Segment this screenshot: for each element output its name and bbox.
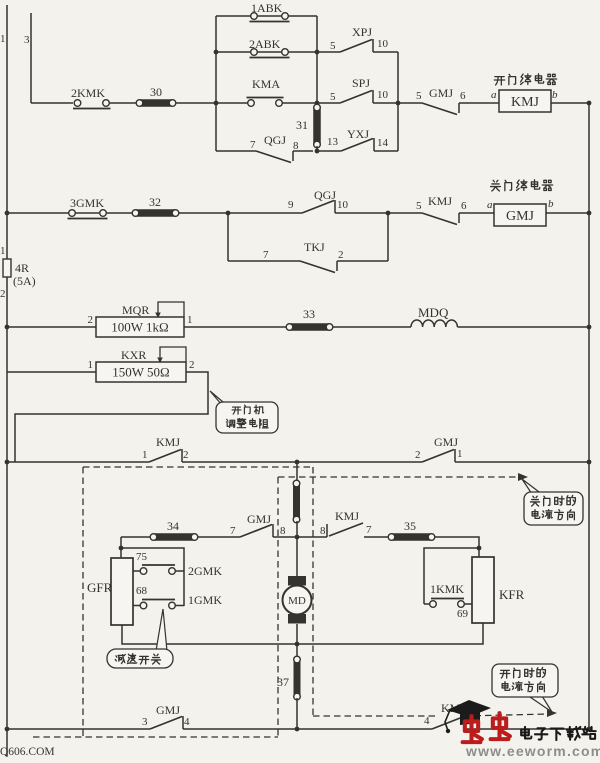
wire: motor column upper bbox=[296, 462, 298, 487]
svg-text:5: 5 bbox=[330, 91, 336, 103]
wire: bottom row y729 bbox=[7, 728, 150, 730]
svg-text:KMJ: KMJ bbox=[511, 95, 540, 110]
svg-text:KFR: KFR bbox=[499, 587, 525, 602]
svg-text:KMJ: KMJ bbox=[428, 194, 452, 208]
wire: row MQR y327 bbox=[7, 326, 96, 328]
KXR wiper arrow bbox=[160, 347, 186, 362]
wire bbox=[184, 326, 290, 328]
callout 关门时的电流方向 bbox=[522, 479, 543, 495]
svg-text:2: 2 bbox=[0, 288, 6, 300]
svg-text:10: 10 bbox=[377, 38, 389, 50]
callout 减速开关 bbox=[156, 609, 167, 651]
wire: left supply line 1 bbox=[6, 5, 8, 756]
dashed vertical right of motor bbox=[312, 467, 314, 716]
svg-text:30: 30 bbox=[150, 85, 162, 99]
dashed bottom right 开门 bbox=[313, 715, 436, 717]
svg-text:14: 14 bbox=[377, 137, 389, 149]
svg-text:7: 7 bbox=[250, 139, 256, 151]
wire bbox=[333, 326, 411, 328]
svg-text:2KMK: 2KMK bbox=[71, 86, 105, 100]
svg-text:GMJ: GMJ bbox=[247, 512, 271, 526]
svg-text:37: 37 bbox=[277, 675, 289, 689]
relay coil KMJ bbox=[499, 90, 551, 112]
svg-text:31: 31 bbox=[296, 118, 308, 132]
MQR wiper arrow bbox=[158, 302, 184, 317]
svg-text:KMJ: KMJ bbox=[156, 435, 180, 449]
wire: row y537 left of motor bbox=[121, 536, 240, 538]
svg-text:2GMK: 2GMK bbox=[188, 564, 222, 578]
svg-text:QGJ: QGJ bbox=[264, 133, 286, 147]
svg-text:33: 33 bbox=[303, 307, 315, 321]
svg-text:8: 8 bbox=[293, 140, 299, 152]
svg-text:1: 1 bbox=[0, 33, 6, 45]
callout 开门时的电流方向 bbox=[530, 696, 552, 712]
svg-text:6: 6 bbox=[461, 200, 467, 212]
svg-text:b: b bbox=[548, 198, 554, 210]
fuse 4R (5A) bbox=[3, 259, 11, 277]
wire bbox=[182, 461, 422, 463]
svg-text:7: 7 bbox=[366, 524, 372, 536]
wire bbox=[110, 102, 139, 104]
junction TKJ branch bbox=[226, 211, 231, 216]
svg-text:a: a bbox=[487, 199, 493, 211]
wire: KFR bottom bbox=[297, 623, 483, 644]
wire to KFR bbox=[435, 537, 479, 557]
svg-text:10: 10 bbox=[377, 89, 389, 101]
wire: branch vertical C bbox=[397, 52, 399, 151]
svg-text:(5A): (5A) bbox=[13, 274, 36, 288]
svg-text:34: 34 bbox=[167, 519, 179, 533]
svg-text:YXJ: YXJ bbox=[347, 127, 369, 141]
svg-text:8: 8 bbox=[320, 525, 326, 537]
svg-text:69: 69 bbox=[457, 608, 469, 620]
dashed bottom bbox=[33, 736, 278, 738]
svg-text:3: 3 bbox=[24, 34, 30, 46]
junction bbox=[295, 642, 300, 647]
wire bbox=[546, 212, 589, 214]
wire bbox=[317, 150, 341, 152]
svg-text:KXR: KXR bbox=[121, 348, 146, 362]
watermark 电子下载站 bbox=[521, 727, 531, 739]
junction bbox=[214, 101, 219, 106]
junction bbox=[315, 101, 320, 106]
svg-text:GMJ: GMJ bbox=[156, 703, 180, 717]
wire bbox=[296, 521, 298, 576]
wire: row2 2ABK/XPJ bbox=[216, 51, 317, 53]
resistor motor-top bbox=[293, 482, 300, 521]
wire: row y462 bbox=[7, 461, 149, 463]
svg-text:3GMK: 3GMK bbox=[70, 196, 104, 210]
dashed vertical left of motor bbox=[277, 477, 279, 737]
svg-text:MDQ: MDQ bbox=[418, 305, 449, 320]
dashed current path 关门 left bbox=[82, 467, 84, 737]
wire: branch vertical B bbox=[316, 16, 318, 103]
wire: row GMJ-coil y213 bbox=[7, 212, 302, 214]
svg-text:32: 32 bbox=[149, 195, 161, 209]
svg-text:4R: 4R bbox=[15, 261, 29, 275]
svg-text:3: 3 bbox=[142, 716, 148, 728]
wire to node bbox=[176, 102, 248, 104]
wire bbox=[337, 260, 388, 262]
wire: row y537 right of motor bbox=[297, 536, 327, 538]
svg-text:13: 13 bbox=[327, 136, 339, 148]
wire bbox=[296, 698, 298, 729]
junction bbox=[587, 101, 592, 106]
svg-text:5: 5 bbox=[416, 200, 422, 212]
svg-text:1: 1 bbox=[457, 448, 463, 460]
svg-text:1GMK: 1GMK bbox=[188, 593, 222, 607]
svg-text:XPJ: XPJ bbox=[352, 25, 372, 39]
svg-text:150W 50Ω: 150W 50Ω bbox=[112, 365, 169, 380]
svg-text:SPJ: SPJ bbox=[352, 76, 370, 90]
wire: TKJ branch down-left bbox=[227, 213, 229, 261]
wire bbox=[465, 728, 589, 730]
watermark 虫虫 red bbox=[463, 716, 482, 742]
relay coil GMJ bbox=[494, 204, 546, 226]
svg-text:GMJ: GMJ bbox=[429, 86, 453, 100]
wire: supply line 3 bbox=[30, 13, 32, 103]
wire: row KXR y372 bbox=[7, 371, 96, 373]
svg-text:GMJ: GMJ bbox=[506, 209, 535, 224]
dashed current path 关门 top bbox=[83, 466, 313, 468]
wire to right bus bbox=[551, 102, 589, 104]
svg-text:MD: MD bbox=[288, 595, 306, 607]
wire: row4 QGJ/YXJ bbox=[216, 150, 256, 152]
svg-text:MQR: MQR bbox=[122, 303, 149, 317]
svg-text:35: 35 bbox=[404, 519, 416, 533]
svg-text:1: 1 bbox=[142, 449, 148, 461]
wire bbox=[317, 51, 340, 53]
wire bbox=[282, 102, 340, 104]
svg-text:KMA: KMA bbox=[252, 77, 280, 91]
wire bbox=[457, 326, 589, 328]
svg-text:b: b bbox=[552, 89, 558, 101]
wire: branch vertical A bbox=[215, 16, 217, 151]
svg-text:7: 7 bbox=[263, 249, 269, 261]
wire bbox=[364, 536, 392, 538]
svg-text:100W 1kΩ: 100W 1kΩ bbox=[111, 320, 168, 335]
svg-text:2: 2 bbox=[189, 359, 195, 371]
wire bbox=[273, 536, 297, 538]
svg-text:KMJ: KMJ bbox=[335, 509, 359, 523]
svg-text:TKJ: TKJ bbox=[304, 240, 325, 254]
wire: GFR top feed bbox=[120, 537, 122, 558]
svg-text:a: a bbox=[491, 89, 497, 101]
wire bbox=[455, 461, 589, 463]
svg-text:1: 1 bbox=[88, 359, 94, 371]
svg-text:8: 8 bbox=[280, 525, 286, 537]
svg-text:www.eeworm.com: www.eeworm.com bbox=[465, 743, 600, 758]
wire: branch to 1KMK bbox=[424, 548, 479, 604]
svg-text:2: 2 bbox=[415, 449, 421, 461]
svg-text:GFR: GFR bbox=[87, 580, 113, 595]
svg-text:5: 5 bbox=[330, 40, 336, 52]
svg-text:1: 1 bbox=[0, 245, 6, 257]
motor MD bbox=[283, 586, 312, 615]
wire to relay KMJ bbox=[459, 102, 499, 104]
watermark graduation cap bbox=[447, 700, 491, 717]
svg-text:4: 4 bbox=[184, 716, 190, 728]
svg-text:2: 2 bbox=[338, 249, 344, 261]
wire: row1 1ABK bbox=[216, 15, 317, 17]
wire bbox=[373, 102, 422, 104]
svg-text:2: 2 bbox=[183, 449, 189, 461]
wire: right bus bbox=[588, 103, 590, 729]
svg-text:2: 2 bbox=[88, 314, 94, 326]
dashed arrow line 关门 bbox=[278, 476, 518, 478]
svg-text:4: 4 bbox=[424, 715, 430, 727]
svg-text:Q606.COM: Q606.COM bbox=[0, 746, 55, 758]
wire bbox=[183, 728, 432, 730]
callout 开门机调整电阻 bbox=[210, 391, 229, 407]
wire: motor to bottom bbox=[296, 624, 298, 659]
wire to relay GMJ bbox=[459, 212, 494, 214]
svg-text:QGJ: QGJ bbox=[314, 188, 336, 202]
wire bbox=[373, 51, 398, 53]
svg-text:1KMK: 1KMK bbox=[430, 582, 464, 596]
wire: GMK contact frame bbox=[121, 548, 184, 606]
svg-text:5: 5 bbox=[416, 90, 422, 102]
svg-text:7: 7 bbox=[230, 525, 236, 537]
svg-text:75: 75 bbox=[136, 551, 148, 563]
wire: row KMJ-coil y103 left bbox=[31, 102, 73, 104]
svg-text:6: 6 bbox=[460, 90, 466, 102]
wire bbox=[335, 212, 422, 214]
wire: GFR bottom bbox=[122, 625, 297, 644]
wire: KXR tap to lower row bbox=[15, 372, 208, 462]
wire: TKJ branch up-right bbox=[387, 213, 389, 261]
svg-text:10: 10 bbox=[337, 199, 349, 211]
svg-text:1: 1 bbox=[187, 314, 193, 326]
motor MD brushes bbox=[288, 576, 306, 586]
label 关门继电器 bbox=[491, 180, 501, 191]
wire: TKJ row bbox=[228, 260, 300, 262]
svg-text:GMJ: GMJ bbox=[434, 435, 458, 449]
svg-text:9: 9 bbox=[288, 199, 294, 211]
svg-text:68: 68 bbox=[136, 585, 148, 597]
label 开门继电器 bbox=[494, 77, 504, 85]
wire bbox=[374, 150, 398, 152]
